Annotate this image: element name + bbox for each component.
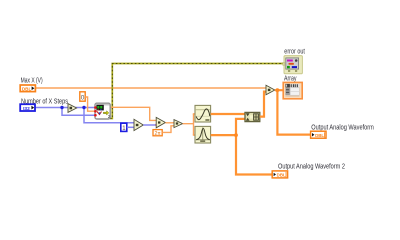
wire T_c output split to sine and gaussian inputs [183,114,195,135]
control terminal Number of X Steps I32 [20,104,35,112]
interleave 1D arrays node [245,112,260,121]
thick wire interleave output up to multiply T_d input [260,92,267,117]
wire branch N at junction B down to subtract T_a top input [84,108,135,123]
gaussian pattern VI [195,126,211,143]
constant 1 [121,123,127,132]
pin input dots on express VI [94,106,97,109]
svg-text:Output Analog Waveform 2: Output Analog Waveform 2 [278,164,345,171]
svg-text:2π: 2π [154,131,161,137]
svg-text:DBL: DBL [22,87,32,92]
sine pattern VI [195,105,211,122]
wire Max X (V) to multiply T_d (thin orange) [36,87,267,89]
wire branch N at junction A down to express input 3 [62,108,95,116]
thick wire gaussian output to interleave input 2 and to Output Analog Waveform 2 [211,119,273,175]
svg-text:Max X (V): Max X (V) [21,78,43,85]
divide triangle T_b [156,117,165,127]
coercion dot at T_b lower input [156,123,159,126]
multiply triangle T_d [266,85,275,95]
wire T_a output to divide T_b bottom input [143,124,156,126]
svg-text:DBL: DBL [277,173,286,178]
indicator terminal Output Analog Waveform 2 DBL array [272,171,287,178]
constant 0 [80,92,85,102]
label Number of X Steps [21,98,68,105]
thick wire sine output to interleave input 1 [211,113,245,115]
multiply triangle T_c [174,120,183,128]
svg-text:2: 2 [108,114,111,119]
svg-text:DBL: DBL [315,133,324,138]
label Output Analog Waveform 2 [278,164,345,171]
indicator terminal Output Analog Waveform DBL array [311,131,326,138]
control terminal Max X (V) DBL [20,85,35,92]
wire constant 1 to subtract T_a bottom input [127,126,135,128]
constant 2pi [153,130,162,137]
decrement triangle [68,104,77,113]
error out indicator icon [283,56,303,74]
wire express VI output to divide T_b top input [110,107,157,120]
junction node A on N wire [60,106,63,109]
wire 2pi constant to T_c bottom input [162,126,174,133]
svg-text:Array: Array [284,75,297,82]
svg-text:I32: I32 [23,106,30,112]
label Output Analog Waveform [311,125,374,132]
Array indicator icon (2D array of DBL) [283,82,302,98]
wire constant 0 to express VI [85,97,95,111]
express VI U1 (simulate signal style icon) [94,103,111,119]
wire Number of X Steps main run (blue) [35,107,95,109]
wire T_b output to multiply T_c input [165,122,174,124]
label Array [284,75,297,82]
svg-text:0: 0 [81,95,85,102]
junction node B on N wire [82,106,85,109]
subtract triangle T_a [134,119,143,130]
label error out [284,48,305,55]
thick wire T_d output to Array indicator, branch to Output Analog Waveform [275,90,311,134]
svg-text:error out: error out [284,48,305,55]
wire error cluster (olive dashed) express VI to error out [110,64,284,119]
label Max X (V) [21,78,43,85]
junction on gaussian wire [234,133,238,137]
junction after T_d [276,88,280,92]
